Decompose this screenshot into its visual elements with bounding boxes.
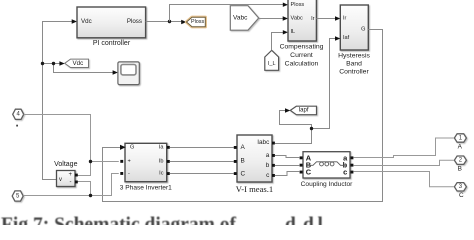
block PI controller bbox=[77, 7, 146, 47]
block V-I meas.1 bbox=[234, 135, 275, 194]
wire Compensating Ir output to Hysteresis bbox=[316, 18, 335, 20]
wire V-I meas b to Coupling B bbox=[275, 165, 299, 167]
svg-text:l: l bbox=[318, 215, 324, 226]
wire Ia to V-I meas A bbox=[170, 147, 234, 149]
svg-text:A: A bbox=[241, 144, 246, 151]
svg-text:G: G bbox=[361, 27, 365, 33]
node junction dot port5 net bbox=[89, 194, 92, 197]
goto tag Ploss (highlighted) bbox=[187, 17, 206, 26]
svg-text:Voltage: Voltage bbox=[54, 161, 77, 168]
svg-text:Hysteresis: Hysteresis bbox=[338, 52, 370, 59]
wire Vabc tag to Compensating block bbox=[259, 18, 284, 20]
svg-text:C: C bbox=[459, 192, 464, 199]
svg-text:PI controller: PI controller bbox=[93, 40, 131, 47]
wire I_L tag to Compensating IL input bbox=[272, 33, 284, 51]
arrowhead into Hysteresis Iaf input bbox=[335, 36, 340, 40]
svg-text:Iabc: Iabc bbox=[257, 139, 270, 146]
svg-text:C: C bbox=[241, 171, 246, 178]
arrowhead into Ploss goto tag bbox=[181, 20, 186, 25]
wire branch to Vdc goto tag bbox=[43, 63, 60, 65]
caption figure text (cut off at bottom) bbox=[1, 215, 324, 236]
svg-text:Vdc: Vdc bbox=[73, 60, 84, 67]
arrowhead into Compensating Vabc input bbox=[283, 16, 288, 21]
svg-text:Band: Band bbox=[346, 60, 362, 67]
svg-text:+: + bbox=[69, 172, 73, 178]
block Voltage measurement bbox=[54, 161, 78, 187]
svg-text:d: d bbox=[285, 215, 296, 226]
wire Coupling c to port 3 bbox=[353, 172, 453, 187]
svg-text:Vdc: Vdc bbox=[81, 18, 92, 25]
svg-text:+: + bbox=[128, 159, 131, 165]
arrowhead into scope bbox=[113, 70, 118, 75]
arrowhead into PI controller Vdc input bbox=[72, 19, 77, 24]
block Hysteresis Band Controller bbox=[338, 5, 370, 75]
svg-text:IL: IL bbox=[291, 29, 296, 35]
wire branch to scope bbox=[54, 64, 114, 73]
wire Ib to V-I meas B bbox=[170, 161, 234, 163]
wire Coupling a to port 1 bbox=[353, 138, 453, 158]
svg-text:Current: Current bbox=[290, 52, 313, 59]
wire V-I meas c to Coupling C bbox=[275, 172, 299, 176]
goto tag Vdc bbox=[65, 59, 89, 67]
svg-text:3 Phase Inverter1: 3 Phase Inverter1 bbox=[120, 184, 172, 191]
svg-text:Iapf: Iapf bbox=[299, 108, 309, 114]
block Scope bbox=[118, 62, 139, 85]
svg-text:Ploss: Ploss bbox=[127, 18, 142, 25]
block Coupling Inductor bbox=[300, 152, 354, 188]
svg-text:Ib: Ib bbox=[159, 159, 164, 165]
svg-text:Vabc: Vabc bbox=[233, 15, 248, 22]
svg-text:I_L: I_L bbox=[268, 61, 276, 67]
svg-text:Ir: Ir bbox=[311, 16, 315, 22]
node junction dot at Vdc tag branch bbox=[52, 62, 55, 65]
wire port 4 to inverter plus and voltage plus bbox=[24, 115, 119, 176]
svg-text:Calculation: Calculation bbox=[285, 60, 319, 67]
port 3 bbox=[454, 183, 466, 199]
svg-text:G: G bbox=[130, 145, 134, 151]
svg-text:Compensating: Compensating bbox=[280, 44, 324, 51]
node junction dot Iabc net bbox=[310, 127, 313, 130]
svg-text:Ploss: Ploss bbox=[291, 2, 305, 8]
svg-text:Controller: Controller bbox=[339, 68, 369, 75]
arrowhead into Compensating Ploss input bbox=[283, 3, 288, 7]
wire V-I meas a to Coupling A bbox=[275, 156, 299, 158]
port 2 bbox=[454, 156, 466, 173]
svg-text:Iaf: Iaf bbox=[343, 35, 350, 41]
arrowhead into Hysteresis Ir input bbox=[335, 16, 340, 21]
svg-text:b: b bbox=[266, 162, 270, 169]
svg-text:Ic: Ic bbox=[159, 171, 164, 177]
wire G gate from Hysteresis output around to inverter bbox=[103, 30, 383, 202]
svg-text:a: a bbox=[266, 152, 270, 159]
from tag I_L bbox=[265, 50, 279, 70]
svg-text:V-I meas.1: V-I meas.1 bbox=[236, 184, 273, 194]
svg-text:Ir: Ir bbox=[343, 16, 347, 22]
annotation dot under port 4 bbox=[16, 125, 18, 127]
svg-text:B: B bbox=[458, 166, 462, 173]
svg-text:d: d bbox=[303, 215, 314, 226]
block 3 Phase Inverter1 bbox=[120, 143, 172, 191]
svg-text:Coupling Inductor: Coupling Inductor bbox=[301, 181, 353, 188]
svg-text:Vabc: Vabc bbox=[291, 16, 304, 22]
block Compensating Current Calculation bbox=[280, 0, 324, 67]
svg-text:-: - bbox=[70, 179, 72, 185]
port 4 bbox=[13, 109, 24, 119]
port 5 bbox=[12, 191, 23, 201]
svg-text:v: v bbox=[59, 177, 62, 183]
arrowhead into Vdc goto tag bbox=[59, 61, 64, 66]
node junction dot on Vdc vertical bbox=[41, 62, 44, 65]
svg-text:Fig 7: Schematic diagram of: Fig 7: Schematic diagram of bbox=[1, 215, 237, 226]
wire Coupling b to port 2 bbox=[353, 160, 453, 165]
svg-text:A: A bbox=[458, 144, 463, 151]
from tag Vabc bbox=[230, 6, 258, 31]
wire port 5 to inverter minus and voltage minus bbox=[23, 174, 119, 196]
port 1 bbox=[454, 134, 466, 151]
node junction dot port4 net bbox=[89, 160, 92, 163]
wire Vdc net vertical from Voltage v output to PI controller input bbox=[43, 22, 73, 180]
svg-text:c: c bbox=[343, 168, 347, 177]
wire Iabc net to Iapf tag and Hysteresis Iaf bbox=[275, 39, 336, 144]
goto tag Iapf bbox=[290, 106, 316, 115]
arrowhead into Iapf tag bbox=[285, 108, 290, 113]
svg-text:-: - bbox=[128, 171, 130, 177]
svg-text:C: C bbox=[306, 168, 312, 177]
wire Ploss branch up to Compensating block bbox=[170, 5, 284, 22]
svg-text:B: B bbox=[241, 158, 245, 165]
svg-text:Ploss: Ploss bbox=[191, 19, 204, 25]
wire Ic to V-I meas C bbox=[170, 173, 234, 175]
wire PI controller output to Ploss tag bbox=[146, 21, 182, 23]
arrowhead into Compensating IL input bbox=[283, 30, 288, 34]
node junction dot on Ploss wire bbox=[168, 20, 171, 23]
